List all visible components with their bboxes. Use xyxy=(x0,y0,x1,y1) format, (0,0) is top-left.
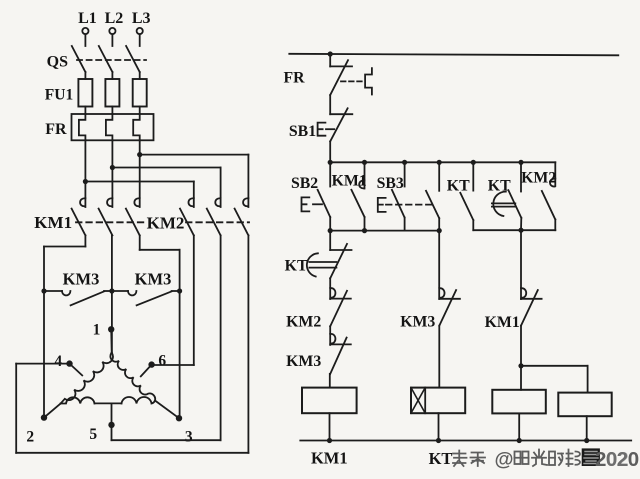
label KM1 aux xyxy=(332,173,367,190)
watermark char guang xyxy=(532,450,547,467)
fuse FU1 pole 1 xyxy=(78,79,92,107)
label FR control xyxy=(283,70,305,87)
fuse FU1 pole 2 xyxy=(105,79,119,107)
node 1 terminal xyxy=(93,322,115,339)
wire FR to KM1 phase 1 xyxy=(84,140,86,207)
wire phase 1 to KM2 xyxy=(85,182,193,208)
svg-text:KM2: KM2 xyxy=(286,314,321,331)
node 2 terminal xyxy=(26,414,47,445)
KM2 main contact pole 3 blade xyxy=(235,209,249,236)
node rung SB3 xyxy=(402,160,407,165)
svg-text:KM1: KM1 xyxy=(485,314,520,331)
node rail KM2 coil xyxy=(584,438,589,443)
node 3 terminal xyxy=(176,415,193,446)
svg-text:2: 2 xyxy=(26,429,34,446)
svg-text:QS: QS xyxy=(47,54,68,71)
node 5 terminal xyxy=(89,422,114,443)
terminal L2 xyxy=(105,10,124,34)
SB2 dash link xyxy=(313,203,322,205)
node bus1 KM1aux xyxy=(362,228,367,233)
svg-text:4: 4 xyxy=(54,353,62,370)
wire L1 stub xyxy=(84,34,86,46)
label KT contact xyxy=(447,178,470,195)
KM1 NC contact chain C xyxy=(521,288,542,326)
node rung KT1 xyxy=(471,160,476,165)
svg-text:KM3: KM3 xyxy=(63,270,100,289)
KM1 aux contact xyxy=(351,162,364,230)
wire 6 to winding xyxy=(141,365,152,377)
watermark at sign xyxy=(494,449,513,471)
label KM1 coil xyxy=(311,449,348,468)
node KM3 right xyxy=(177,288,182,293)
KM2 aux contact xyxy=(542,162,556,230)
coil KT xyxy=(411,388,465,414)
control top rail xyxy=(289,54,618,56)
wire KM1NC to node xyxy=(520,326,522,366)
FR heater element phase 1 xyxy=(79,114,86,140)
wire KM2 pole3 to node 4 xyxy=(16,235,248,452)
watermark char liang highlighted xyxy=(582,448,600,466)
contact KM3 right blade xyxy=(137,291,180,305)
wire KM2 pole1 to node 6 xyxy=(152,235,194,365)
switch QS linkage dashed line xyxy=(77,59,146,61)
node 4 terminal xyxy=(54,353,72,370)
node rung link xyxy=(437,160,442,165)
SB1 actuator xyxy=(318,123,326,136)
label KT coil xyxy=(429,449,453,468)
wire FR to KM1 phase 3 xyxy=(139,140,141,207)
KM2 main contact pole 1 blade xyxy=(180,209,194,236)
switch QS pole 1 blade xyxy=(72,46,86,72)
FR control contact xyxy=(330,54,352,114)
svg-text:L1: L1 xyxy=(78,10,97,27)
wire 4 to winding xyxy=(70,364,83,376)
KT delayed contact xyxy=(508,162,521,230)
wire KM1 pole3 to KM3 right xyxy=(140,235,180,418)
svg-text:1: 1 xyxy=(93,322,101,339)
watermark char de xyxy=(549,452,563,466)
svg-text:FU1: FU1 xyxy=(45,86,73,103)
switch QS pole 2 blade xyxy=(99,46,113,72)
wire FU1 to FR phase 3 xyxy=(139,107,141,115)
label KM1 chain C xyxy=(485,314,520,331)
wire KM3 coil to rail xyxy=(518,413,520,440)
KT delay arc xyxy=(493,192,505,216)
wire FU1 to FR phase 1 xyxy=(84,107,86,115)
KM1 main contact pole 2 hook xyxy=(107,198,112,206)
watermark char neng xyxy=(567,450,581,467)
SB1 dash link xyxy=(326,128,334,130)
FR actuator dashed link xyxy=(341,80,364,82)
label SB3 xyxy=(377,175,404,192)
wire 3 to winding xyxy=(155,401,179,419)
node bus1 link xyxy=(437,228,442,233)
wire KM1 coil to rail xyxy=(329,413,331,440)
svg-text:KM2: KM2 xyxy=(147,214,185,233)
label KM3 left xyxy=(63,270,100,289)
svg-text:KM3: KM3 xyxy=(286,353,321,370)
svg-text:KT: KT xyxy=(447,178,470,195)
FR actuator xyxy=(365,68,372,94)
chain A upper wire xyxy=(330,231,351,250)
label KM3 right xyxy=(135,270,172,289)
watermark char yang xyxy=(515,452,529,465)
KM3 NC contact xyxy=(330,326,351,374)
label FR xyxy=(45,121,67,138)
wire QS to FU1 phase 3 xyxy=(139,72,141,79)
svg-text:02: 02 xyxy=(606,448,629,471)
svg-text:KT: KT xyxy=(429,449,453,468)
motor winding bottom right xyxy=(122,397,156,403)
svg-text:SB1: SB1 xyxy=(289,123,316,140)
svg-text:KM1: KM1 xyxy=(332,173,367,190)
SB3 linked contact xyxy=(426,162,439,230)
label SB1 xyxy=(289,123,316,140)
KT delayed NC blade chain A xyxy=(330,244,347,278)
node rail KT coil xyxy=(436,438,441,443)
wire L2 stub xyxy=(111,34,113,46)
coil KM2 xyxy=(558,393,611,417)
wire FU1 to FR phase 2 xyxy=(111,107,113,115)
wire KT coil to rail xyxy=(438,413,440,440)
KM1 main contact pole 1 hook xyxy=(80,198,85,206)
wire phase 3 to KM2 xyxy=(140,155,249,207)
switch QS pole 3 blade xyxy=(126,46,140,72)
node rung KM1aux xyxy=(362,160,367,165)
node rung KT2 xyxy=(518,160,523,165)
contactor interlock dashed line xyxy=(76,221,249,223)
svg-text:@: @ xyxy=(494,449,513,471)
svg-text:L2: L2 xyxy=(105,10,124,27)
motor winding left side xyxy=(61,353,113,404)
label SB2 xyxy=(291,175,318,192)
motor winding right side xyxy=(110,353,155,401)
label KM1 main xyxy=(34,213,72,232)
KM2 main contact pole 1 hook xyxy=(188,198,193,206)
control bus 2 xyxy=(473,229,555,231)
wire to KM1 coil xyxy=(329,374,331,388)
label QS xyxy=(47,54,68,71)
svg-text:KM3: KM3 xyxy=(135,270,172,289)
KT contact xyxy=(460,162,473,230)
terminal L3 xyxy=(132,10,151,34)
node rail KM3 coil xyxy=(517,438,522,443)
wire FR to KM1 phase 2 xyxy=(111,140,113,207)
KM3 NC contact chain B xyxy=(439,288,460,326)
wire to KM3 coil xyxy=(520,366,522,390)
KM2 main contact pole 3 hook xyxy=(243,198,248,206)
label KM2 NC xyxy=(286,314,321,331)
KM2 main contact pole 2 hook xyxy=(215,198,220,206)
wire QS to FU1 phase 2 xyxy=(111,72,113,79)
svg-text:KM1: KM1 xyxy=(34,213,72,232)
svg-text:KT: KT xyxy=(285,258,308,275)
watermark char tou xyxy=(453,451,467,467)
wire L3 stub xyxy=(139,34,141,46)
label KT delayed xyxy=(488,178,511,195)
label FU1 xyxy=(45,86,73,103)
motor winding bottom middle xyxy=(95,402,122,404)
FR heater element phase 2 xyxy=(106,114,113,140)
node coil branch xyxy=(518,363,523,368)
node rail KM1 coil xyxy=(327,438,332,443)
node KM3 left xyxy=(41,288,46,293)
control bus 1 xyxy=(330,230,439,232)
node bus2 KT2 xyxy=(518,228,523,233)
motor winding bottom left xyxy=(61,397,95,403)
SB3 dashed link xyxy=(386,204,433,206)
KM2 NC contact xyxy=(330,278,351,326)
node phase 1 branch xyxy=(83,179,88,184)
wire branch to KM2 coil xyxy=(521,366,588,393)
wire KM2 coil to rail xyxy=(586,416,588,440)
pushbutton SB2 xyxy=(318,162,331,230)
wire KM3 line middle xyxy=(112,290,128,292)
watermark year 2020 xyxy=(595,448,639,471)
node phase 3 branch xyxy=(137,152,142,157)
chain C wire upper xyxy=(520,230,522,299)
wire 2 to winding xyxy=(44,404,61,418)
label KT chain A xyxy=(285,258,308,275)
label KM3 NC xyxy=(286,353,321,370)
FR heater element phase 3 xyxy=(133,114,140,140)
watermark char tiao xyxy=(471,453,486,467)
svg-text:SB2: SB2 xyxy=(291,175,318,192)
node top rail xyxy=(328,51,333,56)
KM1 main contact pole 1 blade xyxy=(72,209,86,236)
svg-text:FR: FR xyxy=(45,121,67,138)
label KM2 aux xyxy=(521,170,556,187)
svg-text:KM1: KM1 xyxy=(311,449,348,468)
contact KM3 right arc xyxy=(128,291,136,295)
pushbutton SB1 contact xyxy=(330,108,352,162)
label KM2 main xyxy=(147,214,185,233)
control bottom rail xyxy=(300,440,631,442)
control rung xyxy=(330,161,556,163)
wire 5 to winding xyxy=(111,403,113,425)
node bus1 SB2 xyxy=(328,228,333,233)
thermal overload relay FR box xyxy=(72,114,154,140)
SB2 actuator xyxy=(302,197,310,211)
svg-text:FR: FR xyxy=(283,70,305,87)
wire KM2 pole2 to node 5 xyxy=(112,235,221,440)
label KM3 chain B xyxy=(400,314,435,331)
KM1 main contact pole 2 blade xyxy=(99,209,113,236)
wire KM3 line left xyxy=(44,290,62,292)
node phase 2 branch xyxy=(110,165,115,170)
coil KM3 xyxy=(492,390,546,414)
svg-text:KM2: KM2 xyxy=(521,170,556,187)
contact KM3 left blade xyxy=(71,291,112,305)
KT delay arc chain A xyxy=(307,253,318,276)
svg-text:L3: L3 xyxy=(132,10,151,27)
wire QS to FU1 phase 1 xyxy=(84,72,86,79)
wire to KT coil xyxy=(438,326,440,388)
svg-text:SB3: SB3 xyxy=(377,175,404,192)
contact KM3 left arc xyxy=(62,291,70,295)
svg-text:6: 6 xyxy=(158,353,166,370)
wire KM1 pole1 to left rail xyxy=(44,235,85,417)
KT delay chords xyxy=(492,203,515,206)
node rung SB1 xyxy=(328,160,333,165)
node 6 terminal xyxy=(148,353,166,370)
terminal L1 xyxy=(78,10,97,34)
node KM3 middle xyxy=(109,288,114,293)
svg-text:KT: KT xyxy=(488,178,511,195)
KM2 main contact pole 2 blade xyxy=(207,209,221,236)
svg-text:KM3: KM3 xyxy=(400,314,435,331)
svg-text:5: 5 xyxy=(89,426,97,443)
pushbutton SB3 xyxy=(392,162,405,230)
KT delay chords chain A xyxy=(309,262,336,268)
svg-text:3: 3 xyxy=(185,429,193,446)
wire KM1 pole2 down to node 1 xyxy=(111,235,113,352)
SB3 actuator xyxy=(378,198,386,212)
chain B wire upper xyxy=(438,231,440,299)
wire node1 to apex xyxy=(110,329,113,352)
coil KM1 xyxy=(302,388,357,414)
KM1 main contact pole 3 blade xyxy=(126,209,140,236)
KM1 main contact pole 3 hook xyxy=(134,198,139,206)
fuse FU1 pole 3 xyxy=(133,79,147,107)
wire phase 2 to KM2 xyxy=(112,168,220,208)
